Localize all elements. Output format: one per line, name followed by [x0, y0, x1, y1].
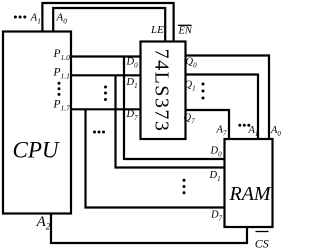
- wire P1.7 to D7: [71, 108, 140, 110]
- dots hdots RAM top: [238, 124, 241, 127]
- svg-text:D7: D7: [126, 109, 139, 122]
- overline of CS: [256, 231, 269, 233]
- wire branch D0 to RAM D0: [124, 57, 225, 160]
- svg-text:D1: D1: [126, 77, 138, 90]
- wire A2 to RAM CS: [51, 214, 247, 244]
- wire A1 to EN (CPU top to latch EN pin): [42, 3, 173, 42]
- svg-text:A0: A0: [270, 125, 281, 138]
- wire branch D1 to RAM D1: [116, 75, 225, 167]
- wire P1.1 to D1: [71, 74, 140, 76]
- svg-text:D0: D0: [126, 57, 139, 70]
- svg-text:A0: A0: [56, 12, 68, 26]
- svg-text:A1: A1: [248, 125, 259, 138]
- svg-text:74LS373: 74LS373: [151, 49, 173, 133]
- RAM box: [225, 139, 273, 227]
- dots vdots latch right: [202, 83, 205, 86]
- svg-text:CPU: CPU: [13, 138, 60, 163]
- svg-text:Q0: Q0: [186, 57, 198, 70]
- svg-text:EN: EN: [178, 26, 193, 37]
- svg-text:CS: CS: [255, 236, 269, 250]
- dots vdots mid gap: [104, 86, 107, 89]
- wire Q7 to RAM A7: [186, 110, 229, 139]
- svg-text:D1: D1: [209, 170, 221, 183]
- svg-text:D7: D7: [210, 210, 223, 223]
- dots vdots RAM left: [183, 179, 186, 182]
- wire P1.0 to D0: [71, 55, 140, 57]
- dots ellipsis top-left: [14, 16, 17, 19]
- dots hdots mid gap lower: [93, 131, 96, 134]
- svg-text:A1: A1: [30, 12, 41, 26]
- dots vdots CPU pins: [58, 82, 61, 85]
- wire Q0 to RAM A0: [186, 56, 269, 140]
- 74LS373 latch box U1: [141, 42, 186, 140]
- wire branch D7 to RAM D7: [86, 109, 225, 207]
- CPU box: [3, 32, 71, 214]
- wire A0 to LE (CPU top to latch LE pin): [53, 8, 165, 42]
- overline of EN: [178, 24, 192, 26]
- wire Q1 to RAM A1: [186, 75, 258, 140]
- svg-text:D0: D0: [210, 146, 223, 159]
- svg-text:A7: A7: [216, 125, 227, 138]
- svg-text:LE: LE: [150, 24, 164, 36]
- svg-text:RAM: RAM: [229, 183, 272, 205]
- svg-text:A2: A2: [36, 214, 51, 232]
